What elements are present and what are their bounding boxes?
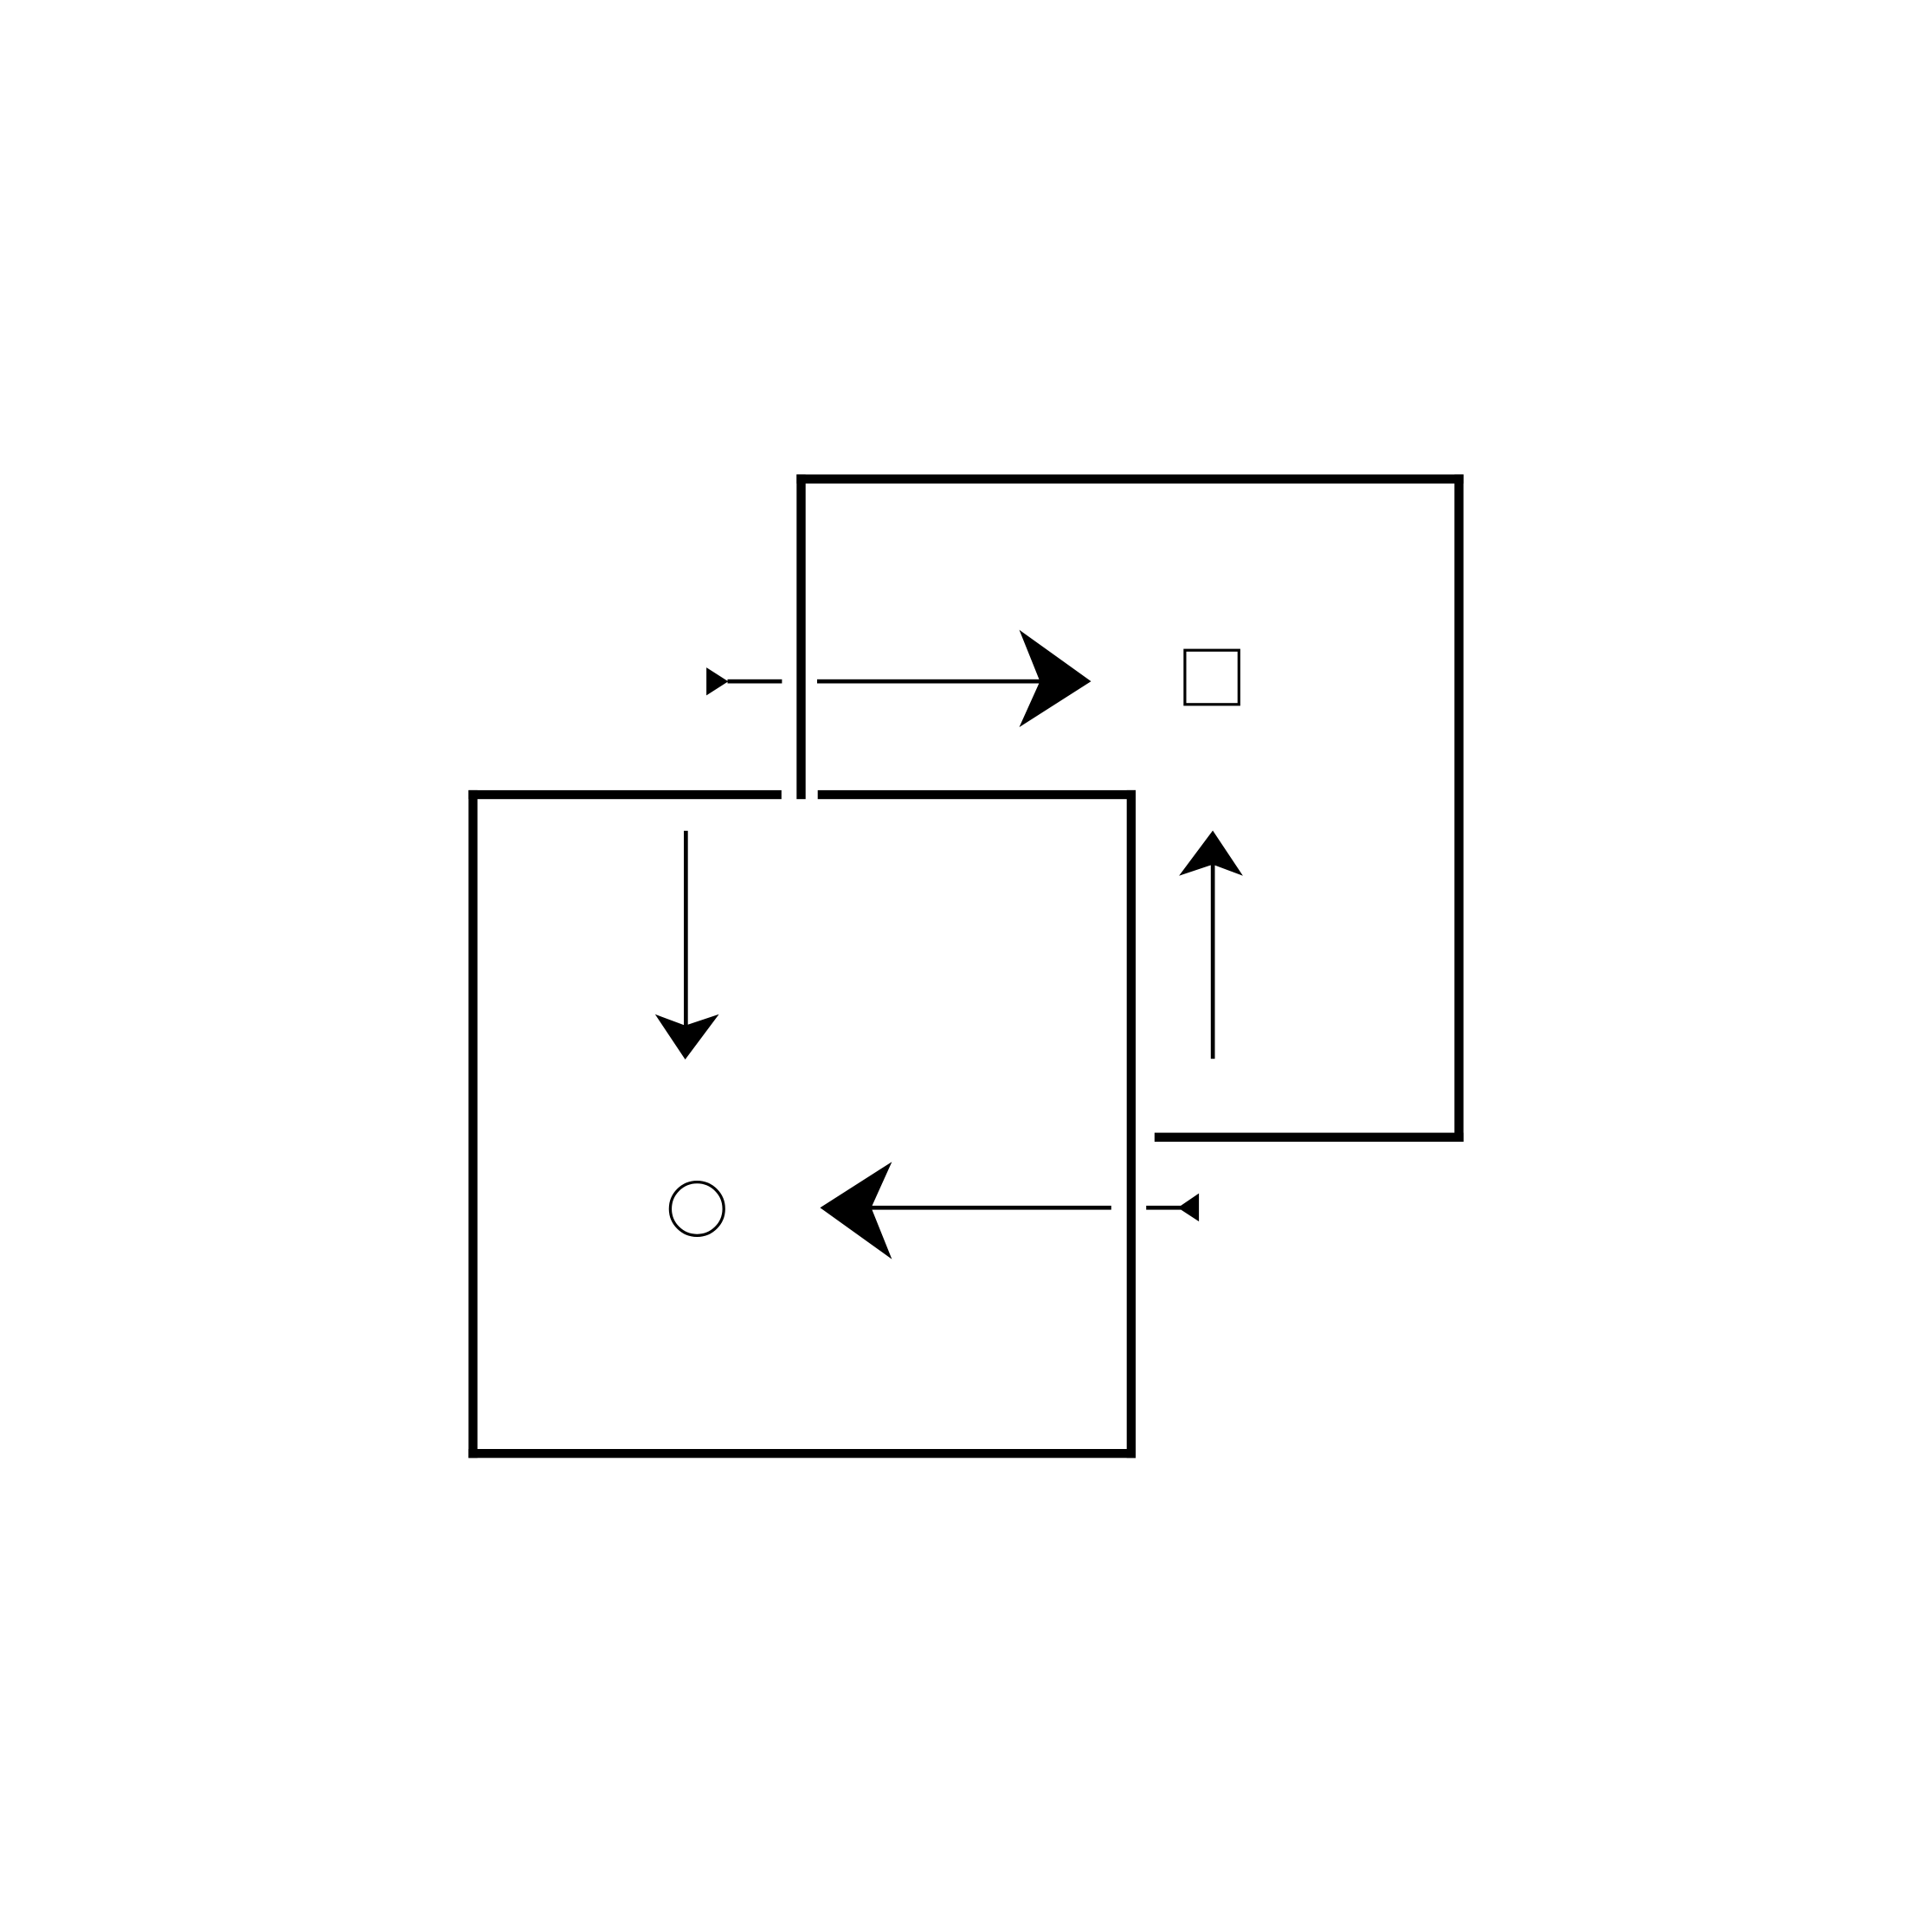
arrow left shaft segment 2: [1146, 1206, 1181, 1210]
front square bottom edge: [468, 1449, 1136, 1458]
back square left edge (ends at front square top border): [796, 474, 805, 799]
arrow right shaft segment 2: [817, 679, 1040, 684]
arrow up shaft: [1211, 862, 1215, 1059]
arrow right (top, pointing right): [706, 630, 1091, 728]
arrow down head: [655, 1014, 719, 1059]
arrow up head: [1179, 831, 1243, 876]
arrow down shaft: [684, 831, 688, 1028]
back square bottom edge (right of front square): [1155, 1133, 1464, 1142]
front square (bottom-left): [468, 790, 1136, 1458]
arrow left tail triangle: [1178, 1194, 1199, 1222]
front square right edge: [1127, 790, 1136, 1458]
arrow left head: [820, 1162, 892, 1259]
arrow up (inside back square): [1179, 831, 1243, 1059]
arrow right tail triangle: [706, 667, 728, 695]
circle (inside front square): [670, 1182, 724, 1236]
back square top edge: [796, 474, 1463, 483]
front square top edge right segment: [818, 790, 1136, 799]
front square top edge left segment: [468, 790, 782, 799]
front square left edge: [468, 790, 477, 1458]
arrow right shaft segment 1: [728, 679, 782, 684]
arrow left shaft segment 1: [870, 1206, 1111, 1210]
arrow right head: [1020, 630, 1092, 728]
arrow down (inside front square): [655, 831, 719, 1059]
small square (inside back square): [1185, 650, 1239, 705]
back square right edge: [1454, 474, 1463, 1142]
arrow left (bottom, pointing left): [820, 1162, 1199, 1259]
back square (top-right): [796, 474, 1463, 1142]
